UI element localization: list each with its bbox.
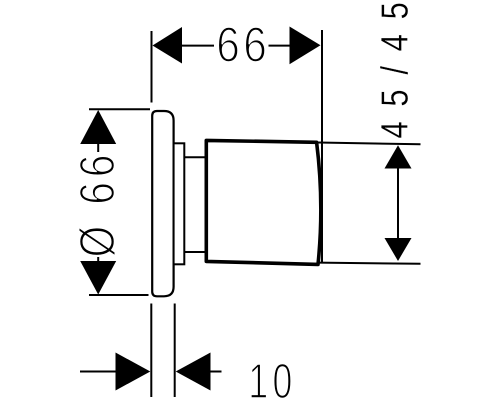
wire: 45/45 top extension line [318,143,421,145]
wire: 45/45 bottom extension line [318,263,421,264]
arrowhead up of Ø66 dimension [80,110,116,144]
wire: Ø66 top extension line [89,108,150,110]
arrowhead pointing left at 10 dimension [176,353,211,391]
neck top line (second step) [184,156,207,158]
wire: Ø66 dimension line upper segment [97,143,99,152]
arrowhead down of 45/45 dimension [385,238,412,261]
mounting step ring (first step behind knob) [174,143,185,264]
arrowhead left of 66 dimension [153,27,183,64]
wire: extension line left of top 66 dimension [151,31,153,103]
wire: Ø66 bottom extension line [89,294,149,296]
svg-text:45/45: 45/45 [375,0,417,139]
wire: 10 dimension leader line left [80,371,116,373]
handle knob body (side view) [206,140,321,264]
arrowhead down of Ø66 dimension [80,261,116,295]
wire: top dimension line left segment [181,45,214,47]
wire: 10 dimension left extension line [150,304,152,398]
arrowhead right of 66 dimension [290,27,321,65]
arrowhead up of 45/45 dimension [385,145,412,168]
escutcheon plate (side view) [152,111,173,296]
neck bottom line (second step) [184,251,207,253]
wire: extension line right (knob face) vertical [321,30,323,263]
wire: 10 dimension right extension line [174,304,176,398]
svg-text:66: 66 [216,16,270,72]
svg-text:Ø 66: Ø 66 [69,150,125,258]
wire: top dimension line right segment [269,45,291,47]
wire: 45/45 dimension line [397,167,399,239]
wire: Ø66 dimension line lower segment [97,257,99,263]
arrowhead pointing right at 10 dimension [116,353,151,391]
wire: 10 dimension leader line right [210,371,222,373]
svg-text:10: 10 [248,354,296,400]
